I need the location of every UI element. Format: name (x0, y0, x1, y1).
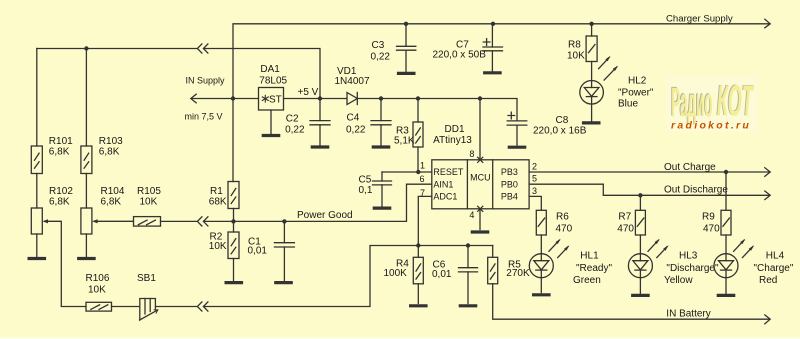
svg-text:R104: R104 (101, 186, 125, 197)
label C1 (248, 236, 268, 256)
wire power good to AIN1 (234, 184, 432, 221)
label pin numbers right (532, 162, 537, 196)
x mark pin 4 (478, 206, 483, 211)
wire R5 top (492, 246, 494, 258)
wire R8 to HL2 (591, 62, 593, 81)
svg-text:"Ready": "Ready" (576, 263, 612, 274)
label IN Battery (666, 308, 710, 319)
connector chevrons SB1 wire (197, 302, 208, 311)
wire R101 drop (36, 49, 38, 147)
wire R103 to R104 (85, 174, 87, 209)
wire x233 rail to R1 (232, 99, 234, 182)
resistor R7 (635, 210, 645, 235)
arrow IN battery (765, 315, 770, 324)
svg-text:100K: 100K (384, 268, 408, 279)
label +5 V (298, 87, 319, 98)
logo radiokot background (666, 76, 758, 132)
wire R2 top (233, 221, 235, 232)
svg-text:5,1K: 5,1K (394, 135, 415, 146)
LED HL1 (529, 254, 553, 278)
label R5 (506, 259, 530, 279)
svg-text:6,8K: 6,8K (99, 147, 120, 158)
label HL3 (664, 250, 719, 286)
capacitor C6 (459, 246, 478, 304)
svg-text:HL4: HL4 (766, 250, 785, 261)
node junction R3 top (416, 96, 420, 100)
wire R3 to RESET node (417, 147, 419, 172)
wire R102 wiper to R106 (48, 221, 86, 306)
wire HL3 to ground (639, 278, 641, 294)
label R2 (209, 232, 227, 252)
svg-text:C8: C8 (556, 115, 569, 126)
svg-text:R7: R7 (618, 212, 631, 223)
label pin number 8 (469, 149, 474, 159)
wire DA1 out to diode (284, 98, 348, 100)
svg-text:1N4007: 1N4007 (335, 76, 370, 87)
arrow R102 wiper (42, 219, 48, 223)
node junction C3 top rail (404, 22, 408, 26)
capacitor C5 (373, 172, 392, 206)
ground R4 (411, 304, 426, 307)
ground C8 (509, 146, 524, 149)
svg-text:"Charge": "Charge" (754, 263, 794, 274)
arrows HL1 light (549, 239, 570, 258)
capacitor C3 (397, 24, 416, 72)
capacitor C4 (371, 99, 391, 145)
svg-text:6: 6 (420, 174, 425, 184)
svg-text:Out Charge: Out Charge (664, 162, 716, 173)
label R4 (384, 259, 410, 279)
svg-text:0,22: 0,22 (371, 51, 391, 62)
svg-text:10K: 10K (140, 197, 158, 208)
label R103 (99, 136, 123, 157)
svg-text:68K: 68K (209, 197, 227, 208)
node junction R103 top (84, 46, 88, 50)
wire R106 to SB1 (112, 306, 139, 308)
node junction C1 (282, 219, 286, 223)
wire PB3 out charge (529, 171, 770, 173)
voltage regulator DA1 (259, 88, 284, 111)
svg-text:5: 5 (532, 174, 537, 184)
resistor R1 (228, 182, 239, 209)
resistor R5 (488, 257, 498, 284)
svg-text:8: 8 (469, 149, 474, 159)
svg-text:"Discharge": "Discharge" (666, 263, 719, 274)
svg-text:IN Battery: IN Battery (666, 308, 710, 319)
svg-text:radiokot.ru: radiokot.ru (671, 120, 751, 132)
label C3 (371, 40, 391, 62)
resistor R4 (413, 257, 423, 284)
label C2 (285, 114, 305, 136)
label R102 (49, 186, 73, 208)
label SB1 (137, 273, 156, 284)
label R105 (137, 186, 161, 208)
wire R104 wiper to R105 (98, 220, 134, 222)
wire RESET row (382, 171, 432, 173)
arrow IN supply (191, 94, 196, 103)
potentiometer R104 (81, 208, 92, 234)
node junction C4 (379, 96, 383, 100)
node junction RESET (416, 170, 420, 174)
svg-text:Green: Green (573, 275, 601, 286)
ground C6 (460, 304, 475, 307)
node junction C7 top rail (491, 22, 495, 26)
ground HL2 (584, 121, 599, 124)
node junction R7 (638, 193, 642, 197)
svg-text:470: 470 (556, 224, 573, 235)
label DD1 (433, 124, 472, 146)
svg-text:DA1: DA1 (260, 64, 280, 75)
wire 5V feedback to dividers (37, 49, 320, 99)
svg-text:Power Good: Power Good (297, 210, 353, 221)
label C4 (346, 113, 366, 136)
label R1 (209, 186, 227, 208)
resistor R101 (31, 146, 42, 174)
svg-text:78L05: 78L05 (259, 75, 287, 86)
node junction R8 top rail (589, 22, 593, 26)
node junction IN supply x233 (231, 96, 235, 100)
logo Радио text (670, 78, 712, 126)
label Charger Supply (666, 14, 733, 25)
label R101 (49, 136, 73, 157)
ground DA1 (263, 134, 278, 137)
node junction pin8 rail (478, 96, 482, 100)
svg-text:PB0: PB0 (501, 179, 518, 189)
x mark pin 8 (478, 157, 483, 162)
node junction power good (231, 219, 235, 223)
node junction R4 (416, 243, 420, 247)
diode VD1 (347, 93, 357, 105)
wire DA1 to ground (270, 110, 272, 134)
resistor R106 (86, 302, 112, 311)
wire IN supply input (191, 98, 258, 100)
svg-text:Blue: Blue (618, 99, 638, 110)
label DA1 ST text (269, 94, 282, 105)
svg-text:0,01: 0,01 (432, 269, 452, 280)
svg-text:PB3: PB3 (501, 167, 518, 177)
svg-text:270K: 270K (506, 268, 530, 279)
svg-text:R1: R1 (210, 186, 223, 197)
wire SB1 to R5 riser (157, 246, 493, 307)
potentiometer R102 (31, 208, 42, 234)
wire R7 top (639, 195, 641, 210)
connector chevrons R105 wire (197, 217, 208, 226)
ground C2 (312, 145, 327, 148)
LED HL2 (580, 81, 604, 105)
wire diode to C4 node (357, 99, 517, 121)
svg-text:10K: 10K (567, 51, 585, 62)
label C7 (433, 40, 487, 61)
MCU DD1 box (432, 160, 529, 209)
svg-text:220,0 x 50В: 220,0 x 50В (433, 50, 487, 61)
svg-text:"Power": "Power" (618, 87, 654, 98)
svg-text:HL2: HL2 (628, 76, 647, 87)
resistor R9 (721, 210, 731, 235)
label Out Discharge (664, 184, 728, 195)
connector chevrons feedback wire (197, 44, 208, 53)
wire PB0 out discharge (529, 184, 770, 195)
label Out Charge (664, 162, 716, 173)
svg-text:C4: C4 (347, 113, 360, 124)
wire HL4 to ground (725, 278, 727, 294)
label R6 (556, 212, 573, 235)
wire R104 to ground (85, 234, 87, 257)
svg-text:AIN1: AIN1 (433, 179, 453, 189)
arrows HL2 light (599, 56, 619, 80)
svg-text:HL1: HL1 (580, 250, 599, 261)
svg-text:SB1: SB1 (137, 273, 156, 284)
svg-text:6,8K: 6,8K (49, 197, 70, 208)
capacitor C1 (274, 221, 294, 281)
wire R103 drop (85, 49, 87, 147)
ground HL3 (633, 294, 648, 297)
node junction C6 (466, 243, 470, 247)
svg-text:Yellow: Yellow (664, 275, 693, 286)
resistor R3 (413, 122, 423, 147)
wire R4 top (417, 246, 419, 258)
ground C4 (373, 145, 388, 148)
arrow charger supply (765, 19, 770, 28)
label MCU pins left (433, 167, 464, 201)
svg-text:HL3: HL3 (679, 250, 698, 261)
resistor R6 (536, 210, 546, 235)
LED HL3 (628, 254, 652, 278)
wire rail to R3 (417, 99, 419, 123)
label C8 (533, 115, 587, 136)
label Power Good (297, 210, 353, 221)
wire R105 to node power good (161, 220, 234, 222)
svg-text:Charger Supply: Charger Supply (666, 14, 733, 25)
arrow out discharge (765, 191, 770, 200)
svg-text:PB4: PB4 (501, 192, 518, 202)
label C6 (432, 259, 452, 279)
svg-text:RESET: RESET (433, 167, 464, 177)
ground HL1 (534, 293, 549, 296)
wire rail to R8 (591, 24, 593, 36)
label R3 (394, 125, 415, 146)
svg-text:4: 4 (469, 210, 474, 220)
wire PB4 to R6 (529, 196, 541, 210)
svg-text:R9: R9 (702, 212, 715, 223)
label MCU center (470, 173, 491, 183)
wire R9 top (725, 172, 727, 210)
resistor R8 (586, 36, 597, 62)
label HL4 (754, 250, 794, 286)
ground C3 (399, 72, 414, 75)
svg-text:470: 470 (617, 224, 634, 235)
wire R7 to HL3 (639, 235, 641, 254)
wire R2 to ground (233, 259, 235, 282)
wire R4 to ground (417, 284, 419, 304)
svg-text:IN Supply: IN Supply (186, 75, 226, 85)
wire R101 to R102 (36, 174, 38, 209)
label DA1 (259, 64, 287, 86)
wire R6 to HL1 (540, 235, 542, 254)
LED HL4 (714, 254, 738, 278)
svg-text:C2: C2 (286, 114, 299, 125)
ground R104 (79, 257, 94, 260)
resistor R103 (81, 146, 92, 174)
svg-text:3: 3 (532, 186, 537, 196)
svg-text:0,22: 0,22 (346, 124, 366, 135)
svg-text:220,0 x 16В: 220,0 x 16В (533, 125, 587, 136)
arrow out charge (765, 168, 770, 177)
wire charger supply rail (233, 24, 770, 99)
svg-text:C5: C5 (359, 175, 372, 186)
ground pin 4 (472, 230, 487, 233)
ground R2 (226, 281, 241, 284)
svg-text:R6: R6 (556, 212, 569, 223)
label IN Supply (186, 75, 226, 85)
label pin numbers left (420, 161, 426, 198)
ground C5 (374, 207, 389, 210)
wire pin 4 to ground (479, 209, 481, 230)
label R106 (86, 273, 110, 295)
svg-text:0,22: 0,22 (285, 124, 305, 135)
label pin number 4 (469, 210, 474, 220)
svg-text:+5 V: +5 V (298, 87, 319, 98)
wire HL1 to ground (540, 278, 542, 293)
svg-text:R102: R102 (49, 186, 73, 197)
pushbutton SB1 (140, 299, 158, 321)
wire R5 to IN battery (493, 284, 770, 319)
capacitor C7 polarized (483, 24, 503, 71)
wire R102 to ground (36, 234, 38, 257)
label C5 (359, 175, 373, 197)
arrows HL4 light (734, 239, 755, 258)
ground C1 (276, 281, 291, 284)
svg-text:2: 2 (532, 162, 537, 172)
svg-text:ADC1: ADC1 (433, 192, 457, 202)
label VD1 (335, 66, 370, 87)
label HL2 (618, 76, 654, 110)
svg-text:min 7,5 V: min 7,5 V (185, 112, 223, 122)
svg-text:DD1: DD1 (445, 124, 465, 135)
wire ADC1 to R4 node (418, 196, 432, 245)
capacitor C8 polarized (507, 112, 527, 145)
label R8 (567, 40, 585, 62)
svg-text:6,8K: 6,8K (49, 147, 70, 158)
svg-text:10K: 10K (209, 241, 227, 252)
svg-text:C3: C3 (372, 40, 385, 51)
ground HL4 (718, 294, 733, 297)
label min 7,5 V (185, 112, 223, 122)
svg-text:R105: R105 (137, 186, 161, 197)
label HL1 (573, 250, 612, 286)
svg-text:0,1: 0,1 (359, 185, 373, 196)
wire pin 8 (479, 99, 481, 160)
svg-text:ST: ST (269, 94, 282, 105)
logo КОТ text (716, 77, 754, 126)
capacitor C2 (310, 99, 330, 145)
svg-text:6,8K: 6,8K (101, 197, 122, 208)
arrow R104 wiper (92, 219, 98, 223)
node junction R9 (724, 170, 728, 174)
label R9 (702, 212, 720, 235)
resistor R105 (134, 217, 161, 227)
svg-text:Red: Red (759, 275, 777, 286)
logo radiokot.ru text (671, 120, 751, 132)
label R104 (101, 186, 125, 208)
svg-text:MCU: MCU (470, 173, 491, 183)
svg-text:0,01: 0,01 (248, 246, 268, 257)
wire HL2 to ground (591, 104, 593, 121)
resistor R2 (228, 232, 239, 259)
label R7 (617, 212, 634, 235)
svg-text:1: 1 (420, 161, 425, 171)
svg-text:ATtiny13: ATtiny13 (433, 135, 472, 146)
svg-text:Out Discharge: Out Discharge (664, 184, 728, 195)
label MCU pins right (501, 167, 518, 201)
wire R9 to HL4 (725, 235, 727, 254)
arrows HL3 light (648, 239, 669, 258)
svg-text:R106: R106 (86, 273, 110, 284)
svg-text:10K: 10K (88, 284, 106, 295)
wire R1 to node (233, 209, 235, 222)
svg-text:R8: R8 (568, 40, 581, 51)
node junction C2 (318, 96, 322, 100)
svg-text:470: 470 (703, 224, 720, 235)
ground C7 (485, 71, 500, 74)
ground R102 (29, 257, 44, 260)
